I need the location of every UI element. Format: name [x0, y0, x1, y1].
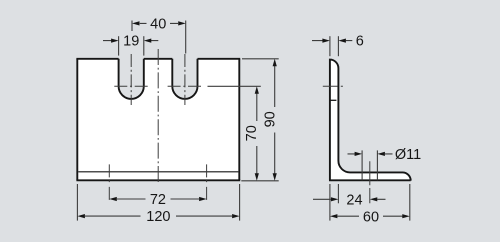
hole centerline left (72) [108, 164, 110, 201]
svg-text:70: 70 [244, 125, 260, 141]
top extension line [242, 58, 279, 60]
top edge segments [76, 58, 240, 60]
dimension 90 [242, 59, 279, 174]
slot 2 vertical centerline [184, 54, 186, 105]
svg-text:40: 40 [150, 17, 166, 33]
svg-text:Ø11: Ø11 [395, 147, 421, 163]
svg-text:72: 72 [150, 192, 166, 208]
dimension 40 [132, 21, 186, 54]
dimension 72 [117, 198, 199, 200]
dimension 120 [77, 184, 239, 221]
slot 2 outline [172, 59, 197, 99]
dimension 70 [208, 86, 279, 181]
svg-text:90: 90 [263, 111, 279, 127]
svg-text:6: 6 [356, 34, 364, 50]
hole edge lines [361, 150, 363, 180]
left edge [76, 59, 78, 181]
hole centerline right (72) [206, 164, 208, 201]
svg-text:120: 120 [146, 209, 170, 225]
slot bottom tick (side view) [330, 99, 336, 101]
front view plate fill with slot cutouts [77, 59, 239, 181]
dimension 19 [103, 36, 158, 55]
slot 2 horizontal centerline [168, 85, 201, 87]
svg-text:19: 19 [123, 34, 139, 50]
middle vertical centerline [157, 49, 159, 185]
side view L-profile outline [329, 60, 411, 181]
hole centerline [369, 161, 371, 203]
bend line (front view) [78, 171, 238, 173]
side view L-profile fill [330, 60, 411, 181]
front view plate outline [76, 59, 240, 181]
dimension diameter 11 [348, 150, 393, 203]
dimension 60 [330, 184, 410, 221]
slot 1 vertical centerline [130, 54, 132, 105]
bottom extension line (shared 70/90) [241, 180, 278, 182]
svg-text:24: 24 [346, 192, 362, 208]
slot horizontal centerline (side view) [323, 85, 343, 87]
dimension 24 [313, 184, 386, 203]
extension from slot center [208, 85, 261, 87]
centerlines front view [109, 49, 206, 202]
slot 1 outline [119, 59, 144, 99]
dimension 6 [312, 36, 352, 56]
slot 1 horizontal centerline [114, 85, 147, 87]
svg-text:60: 60 [363, 209, 379, 225]
bottom edge [76, 179, 240, 181]
right edge [238, 59, 240, 181]
